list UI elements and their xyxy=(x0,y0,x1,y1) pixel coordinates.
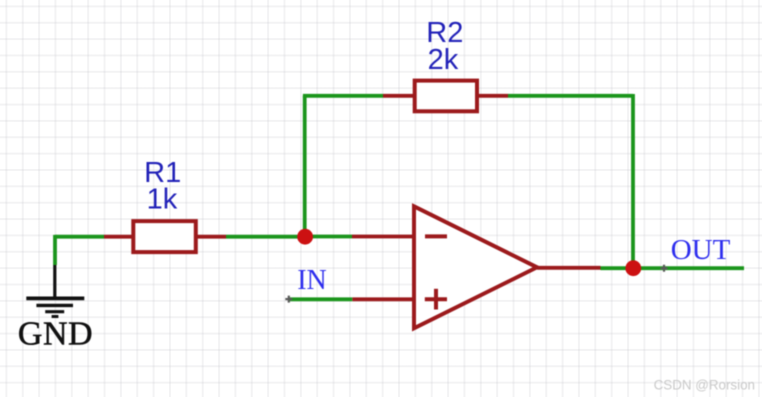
wire feedback vertical left xyxy=(303,96,307,237)
lead op-amp output (dark red) xyxy=(537,266,601,270)
wire right vertical down to output node xyxy=(631,94,635,268)
svg-text:2k: 2k xyxy=(428,44,459,76)
svg-text:OUT: OUT xyxy=(671,234,731,266)
svg-text:IN: IN xyxy=(297,265,327,296)
lead op-amp plus input (dark red) xyxy=(352,297,414,301)
svg-text:GND: GND xyxy=(18,316,93,353)
junction node A dot xyxy=(297,229,313,245)
wire IN to plus lead xyxy=(289,297,353,301)
wire R2-to-right vertical corner xyxy=(508,94,633,98)
port marker OUT (gray cross) xyxy=(661,265,668,272)
resistor R1 xyxy=(104,221,226,252)
wire GND-to-R1 horizontal xyxy=(55,235,104,239)
svg-text:1k: 1k xyxy=(147,184,178,216)
op-amp U1 xyxy=(414,206,537,328)
ground symbol xyxy=(26,265,84,317)
junction output node dot xyxy=(625,260,641,276)
svg-text:CSDN @Rorsion: CSDN @Rorsion xyxy=(654,378,755,393)
wire output to right edge xyxy=(601,266,745,270)
resistor R2 xyxy=(383,81,508,112)
wire R1-to-node-A xyxy=(226,235,305,239)
wire node-A to op-amp minus input xyxy=(305,235,352,239)
lead op-amp minus input (dark red) xyxy=(352,235,414,239)
wire GND riser vertical xyxy=(53,235,57,265)
wire feedback top horizontal xyxy=(303,94,383,98)
port marker IN (gray cross) xyxy=(285,296,292,303)
